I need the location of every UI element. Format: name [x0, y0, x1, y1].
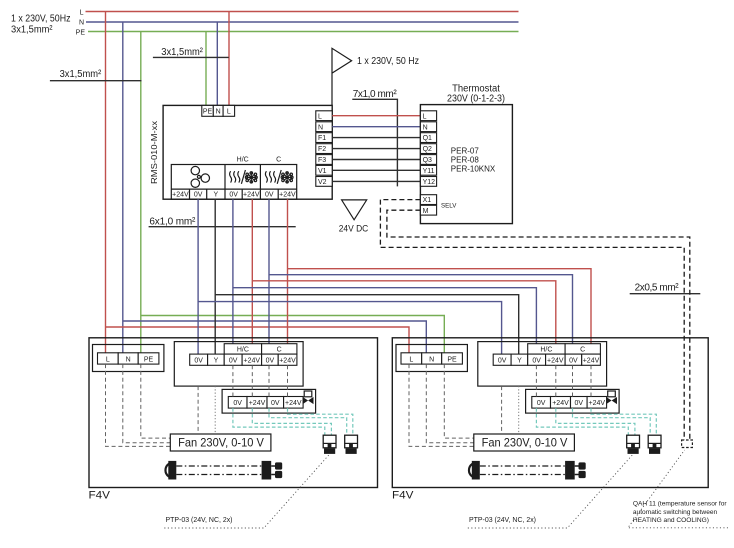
svg-text:C: C: [277, 347, 282, 354]
svg-text:Q2: Q2: [423, 146, 432, 153]
svg-text:automatic switching between: automatic switching between: [633, 509, 718, 516]
svg-text:+24V: +24V: [285, 400, 302, 407]
svg-text:0V: 0V: [266, 358, 275, 365]
svg-text:PE: PE: [144, 356, 154, 363]
svg-text:F3: F3: [318, 157, 326, 164]
svg-text:N: N: [79, 20, 84, 27]
svg-text:+24V: +24V: [249, 400, 266, 407]
svg-text:+24V: +24V: [279, 358, 296, 365]
svg-text:Q3: Q3: [423, 157, 432, 164]
svg-text:L: L: [227, 109, 231, 116]
svg-text:PER-07: PER-07: [451, 147, 480, 156]
svg-text:PE: PE: [203, 109, 213, 116]
svg-text:N: N: [318, 124, 323, 131]
svg-text:L: L: [423, 113, 427, 120]
svg-text:Y: Y: [213, 192, 218, 199]
svg-text:3x1,5mm²: 3x1,5mm²: [11, 25, 53, 36]
svg-text:+24V: +24V: [244, 358, 261, 365]
svg-text:2x0,5 mm²: 2x0,5 mm²: [635, 283, 680, 294]
svg-text:6x1,0 mm²: 6x1,0 mm²: [149, 217, 196, 228]
svg-text:0V: 0V: [229, 192, 238, 199]
svg-text:N: N: [423, 124, 428, 131]
svg-text:N: N: [216, 109, 221, 116]
svg-text:+24V: +24V: [172, 192, 189, 199]
svg-text:1 x 230V, 50Hz: 1 x 230V, 50Hz: [11, 14, 71, 25]
svg-text:N: N: [126, 356, 131, 363]
svg-text:0V: 0V: [229, 358, 238, 365]
svg-text:F4V: F4V: [89, 490, 111, 502]
svg-text:V2: V2: [318, 179, 327, 186]
svg-text:+24V: +24V: [279, 192, 296, 199]
svg-text:SELV: SELV: [441, 203, 457, 210]
svg-text:0V: 0V: [265, 192, 274, 199]
svg-text:0V: 0V: [233, 400, 242, 407]
svg-text:PE: PE: [76, 29, 86, 36]
svg-text:Y: Y: [214, 358, 219, 365]
svg-text:V1: V1: [318, 168, 327, 175]
svg-text:24V DC: 24V DC: [339, 224, 369, 234]
svg-text:+24V: +24V: [243, 192, 260, 199]
svg-text:HEATING and COOLING): HEATING and COOLING): [633, 517, 709, 524]
svg-text:M: M: [423, 208, 429, 215]
svg-text:L: L: [80, 9, 84, 16]
svg-text:X1: X1: [423, 197, 432, 204]
svg-text:PTP-03 (24V, NC, 2x): PTP-03 (24V, NC, 2x): [166, 515, 233, 524]
svg-text:QAH 11 (temperature sensor for: QAH 11 (temperature sensor for: [633, 501, 727, 508]
svg-text:L: L: [106, 356, 110, 363]
svg-text:H/C: H/C: [237, 347, 249, 354]
svg-text:0V: 0V: [194, 358, 203, 365]
svg-text:L: L: [318, 113, 322, 120]
svg-text:F1: F1: [318, 135, 326, 142]
svg-text:Y12: Y12: [423, 179, 436, 186]
svg-text:PER-08: PER-08: [451, 155, 480, 164]
svg-text:F4V: F4V: [392, 490, 414, 502]
svg-text:F2: F2: [318, 146, 326, 153]
svg-text:1 x 230V, 50 Hz: 1 x 230V, 50 Hz: [357, 56, 419, 67]
svg-text:H/C: H/C: [237, 157, 249, 164]
svg-text:Fan 230V, 0-10 V: Fan 230V, 0-10 V: [178, 436, 264, 450]
svg-text:0V: 0V: [271, 400, 280, 407]
svg-text:Y11: Y11: [423, 168, 435, 175]
svg-text:C: C: [276, 157, 281, 164]
svg-text:0V: 0V: [194, 192, 203, 199]
svg-text:230V (0-1-2-3): 230V (0-1-2-3): [447, 93, 505, 104]
svg-text:PER-10KNX: PER-10KNX: [451, 164, 496, 173]
svg-text:Q1: Q1: [423, 135, 432, 142]
svg-text:3x1,5mm²: 3x1,5mm²: [161, 47, 203, 58]
svg-text:3x1,5mm²: 3x1,5mm²: [60, 69, 102, 80]
svg-text:RMS-010-M-xx: RMS-010-M-xx: [150, 121, 159, 184]
svg-text:7x1,0 mm²: 7x1,0 mm²: [353, 89, 398, 100]
